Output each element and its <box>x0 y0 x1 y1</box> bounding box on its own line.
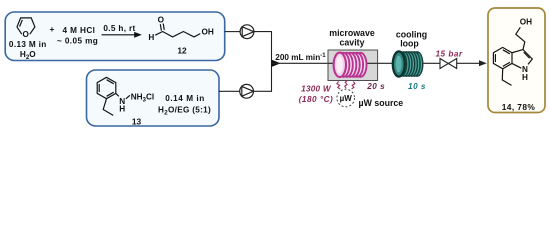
pump P2 <box>240 84 254 98</box>
svg-text:13: 13 <box>132 116 142 126</box>
flow line inside cavity <box>328 62 378 64</box>
wire valve to product box with arrowhead <box>457 62 481 64</box>
benzene ring of indole <box>493 47 512 68</box>
microwave cavity box <box>328 50 378 81</box>
svg-text:O: O <box>158 16 165 25</box>
bond ring to N <box>116 93 119 96</box>
compound 12: 4-hydroxybutanal <box>155 24 200 37</box>
pump P1 <box>240 25 254 39</box>
svg-text:cavity: cavity <box>340 37 365 47</box>
svg-text:0.13 M in: 0.13 M in <box>9 40 47 49</box>
svg-text:200 mL min-1: 200 mL min-1 <box>275 53 326 62</box>
svg-text:15 bar: 15 bar <box>435 50 462 59</box>
reagent box 2 (bottom left, blue) <box>87 70 220 126</box>
svg-text:(180 °C): (180 °C) <box>299 95 334 104</box>
wire pump1 to junction <box>254 31 272 33</box>
2,3-dihydrofuran structure <box>17 18 35 34</box>
svg-text:~ 0.05 mg: ~ 0.05 mg <box>57 37 98 46</box>
svg-text:O: O <box>23 30 30 39</box>
inner aromatic bonds <box>98 84 100 92</box>
svg-text:1300 W: 1300 W <box>301 85 332 94</box>
wire box1 to pump1 <box>225 31 241 33</box>
ethyl group <box>103 99 113 116</box>
svg-text:OH: OH <box>202 27 214 36</box>
7-ethyltryptophol structure <box>493 27 532 85</box>
svg-text:10 s: 10 s <box>408 82 426 91</box>
vertical merge wire <box>271 31 273 92</box>
junction arrowhead <box>272 60 281 67</box>
bond N to NH3Cl <box>126 95 130 99</box>
svg-text:OH: OH <box>520 17 532 26</box>
svg-text:0.5 h, rt: 0.5 h, rt <box>103 24 135 33</box>
svg-text:14, 78%: 14, 78% <box>502 102 536 112</box>
benzene ring <box>97 77 116 98</box>
C2=C3 double bond <box>524 52 530 58</box>
svg-text:20 s: 20 s <box>366 82 385 91</box>
svg-text:µW source: µW source <box>359 98 404 108</box>
microwave squiggle rays <box>337 81 355 89</box>
pyrrole ring <box>512 50 532 65</box>
svg-text:0.14 M in: 0.14 M in <box>165 94 205 103</box>
main flow line to valve <box>272 62 441 64</box>
svg-text:µW: µW <box>340 94 353 103</box>
hydroxyethyl chain <box>516 27 525 49</box>
back-pressure valve <box>440 59 457 69</box>
microwave coil (magenta) <box>334 53 367 77</box>
svg-text:H: H <box>522 73 528 82</box>
cooling coil (teal) <box>393 51 423 76</box>
svg-text:+: + <box>50 24 55 34</box>
reagent box 1 (top left, blue) <box>5 12 225 61</box>
svg-text:4 M HCl: 4 M HCl <box>63 26 96 35</box>
svg-text:12: 12 <box>177 45 187 55</box>
uW source dashed circle <box>337 89 355 107</box>
product box (gold) <box>488 8 545 113</box>
svg-text:H: H <box>148 33 154 42</box>
inner aromatic bonds benzene <box>494 54 496 62</box>
wire box2 to pump2 <box>219 90 240 92</box>
wire pump2 to junction <box>254 90 272 92</box>
svg-text:H: H <box>119 104 125 113</box>
ethyl group <box>502 69 511 86</box>
2-ethylphenylhydrazine HCl structure <box>97 77 130 115</box>
svg-text:loop: loop <box>400 39 419 49</box>
